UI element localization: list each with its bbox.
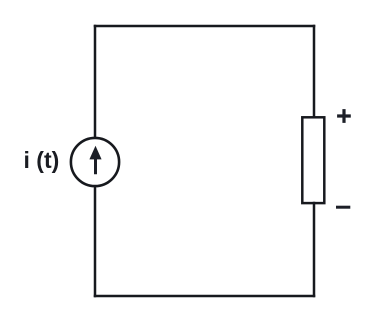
current source I1 circle bbox=[71, 138, 119, 186]
wire right lower bbox=[313, 203, 316, 296]
wire bottom bbox=[95, 295, 314, 298]
load resistor rectangle bbox=[302, 117, 324, 203]
svg-text:i (t): i (t) bbox=[24, 147, 60, 173]
wire top bbox=[95, 25, 314, 28]
wire right upper bbox=[313, 26, 316, 118]
current source I1 arrow bbox=[89, 146, 101, 174]
plus polarity mark bbox=[337, 109, 351, 123]
wire left lower bbox=[94, 187, 97, 297]
minus polarity mark bbox=[336, 206, 350, 209]
wire left upper bbox=[94, 26, 97, 138]
